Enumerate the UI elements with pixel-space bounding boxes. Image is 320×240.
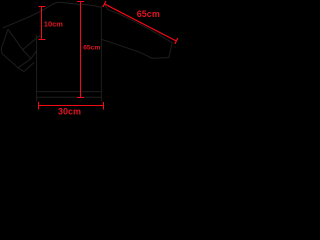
dimension 30cm right tick [103,102,105,110]
box lower depth edge [31,51,37,59]
left post [36,35,38,101]
lower rail [37,96,102,98]
pole (curved top line from lower-left up over the top) [3,2,101,28]
dimension 65cm diagonal line [105,4,177,41]
wedge top edge [105,5,173,43]
right post [100,7,102,101]
box depth edge to post [23,36,40,50]
svg-text:10cm: 10cm [44,19,64,28]
upper rail [37,91,102,93]
pole to wedge connector [101,5,105,8]
box lower right edge [18,59,31,68]
box bottom edge [2,54,18,68]
box front diagonal edge [8,29,23,49]
dimension 65cm vertical line [80,1,82,98]
dimension 65cm diagonal bottom tick [175,38,178,44]
dimension 10cm top tick [39,6,46,8]
box right edge [23,50,31,59]
wedge underside [102,40,169,59]
svg-text:65cm: 65cm [137,9,160,19]
dimension 10cm line [41,6,43,40]
box left edge [1,29,8,53]
dimension 30cm left tick [38,102,40,110]
svg-text:30cm: 30cm [58,107,81,116]
dimension 65cm diagonal top tick [103,1,106,7]
dimension 65cm bottom tick [77,97,84,99]
box bottom tail [18,68,24,72]
wedge right cap [169,43,172,58]
dimension 30cm line [38,105,104,107]
dimension 10cm bottom tick [39,39,46,41]
dimension 65cm top tick [77,1,84,3]
box bottom depth edge [24,63,34,72]
svg-text:65cm: 65cm [83,45,100,52]
